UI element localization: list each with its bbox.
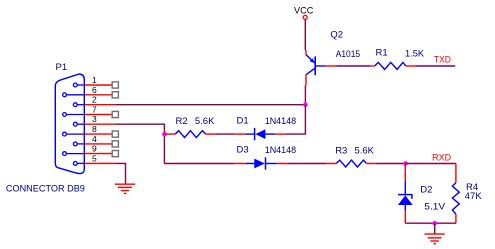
junction RXD: [403, 161, 408, 166]
pin number 1: [92, 75, 97, 85]
svg-text:7: 7: [92, 105, 97, 115]
no-connect square pin 7: [112, 111, 118, 117]
pin number 7: [92, 105, 97, 115]
pin 4 circle: [73, 142, 84, 146]
label 47K: [465, 191, 483, 202]
svg-text:47K: 47K: [465, 191, 483, 202]
wire junction down to D1 row: [286, 105, 306, 134]
label R3: [335, 145, 347, 156]
label 5.6K R3: [355, 145, 375, 156]
pin 5 circle: [73, 162, 84, 166]
wire pin2 to Q2 collector: [116, 104, 306, 106]
pin 5 lead: [84, 162, 115, 164]
pin 2 lead: [84, 104, 115, 106]
junction R2 tap: [162, 132, 167, 137]
wire R2 to D1: [216, 133, 235, 135]
label CONNECTOR DB9: [6, 184, 85, 195]
wire R1 to TXD: [416, 65, 456, 67]
label A1015: [336, 49, 360, 60]
svg-text:TXD: TXD: [434, 55, 451, 66]
pin number 4: [92, 134, 97, 144]
pin 1 circle: [73, 83, 84, 87]
transistor Q2: [306, 50, 336, 85]
svg-text:5.6K: 5.6K: [355, 145, 375, 156]
pin 8 lead: [84, 133, 112, 135]
pin 2 circle: [73, 103, 84, 107]
wire bottom D2 to R4: [405, 222, 456, 224]
pin number 8: [92, 124, 97, 134]
wire R3 to RXD junction: [376, 163, 406, 165]
wire D3 to R3: [287, 163, 325, 165]
svg-text:D1: D1: [237, 116, 249, 127]
svg-text:P1: P1: [56, 62, 68, 73]
resistor R4: [452, 164, 459, 224]
wire Q2 collector down: [304, 85, 306, 104]
svg-text:5: 5: [92, 153, 97, 163]
svg-text:1: 1: [92, 75, 97, 85]
junction Q2 collector / pin2: [303, 103, 308, 108]
junction ground bottom: [432, 221, 437, 226]
svg-text:R1: R1: [376, 48, 388, 59]
svg-text:D3: D3: [237, 145, 249, 156]
wire Q2 base to R1: [336, 65, 370, 67]
label D1: [237, 116, 249, 127]
svg-text:D2: D2: [420, 185, 432, 196]
wire VCC to Q2 emitter: [304, 20, 306, 51]
diode D1: [235, 128, 286, 140]
pin number 9: [92, 144, 97, 154]
pin 9 lead: [84, 153, 112, 155]
svg-text:CONNECTOR DB9: CONNECTOR DB9: [6, 184, 85, 195]
power port VCC: [294, 6, 313, 20]
svg-text:9: 9: [92, 144, 97, 154]
pin number 2: [92, 95, 97, 105]
svg-text:R3: R3: [335, 145, 347, 156]
wire junction to ground right: [434, 223, 436, 234]
svg-text:RXD: RXD: [432, 152, 451, 163]
diode D3: [234, 157, 287, 169]
net label TXD: [434, 55, 451, 66]
resistor R1: [370, 62, 415, 69]
svg-text:A1015: A1015: [336, 49, 360, 60]
pin 3 circle: [73, 122, 84, 126]
connector P1 DB9 outline: [55, 74, 84, 174]
ground left: [115, 184, 135, 193]
no-connect square pin 6: [112, 92, 118, 98]
label 5.1V: [424, 201, 446, 212]
pin 9 circle: [63, 152, 85, 156]
svg-text:1N4148: 1N4148: [265, 116, 297, 127]
pin 7 circle: [63, 113, 85, 117]
label P1: [56, 62, 68, 73]
label 1N4148 D3: [265, 145, 297, 156]
pin 4 lead: [84, 143, 112, 145]
pin 6 lead: [84, 94, 112, 96]
net label RXD: [432, 152, 451, 163]
pin 1 lead: [84, 84, 112, 86]
pin 3 lead: [84, 123, 115, 125]
pin number 6: [92, 85, 97, 95]
pin number 5: [92, 153, 97, 163]
zener diode D2: [398, 165, 413, 224]
svg-text:4: 4: [92, 134, 97, 144]
label Q2: [330, 30, 343, 41]
svg-text:2: 2: [92, 95, 97, 105]
svg-text:Q2: Q2: [330, 30, 343, 41]
label 5.6K R2: [195, 116, 215, 127]
ground right: [424, 234, 444, 244]
svg-text:1N4148: 1N4148: [265, 145, 297, 156]
label R1: [376, 48, 388, 59]
label R2: [176, 116, 188, 127]
pin 8 circle: [63, 132, 85, 136]
label D3: [237, 145, 249, 156]
svg-text:R2: R2: [176, 116, 188, 127]
svg-text:VCC: VCC: [294, 6, 313, 17]
wire vertical pin3 branch to D3: [164, 163, 234, 165]
svg-text:6: 6: [92, 85, 97, 95]
label D2: [420, 185, 432, 196]
resistor R2: [164, 131, 215, 138]
svg-text:5.1V: 5.1V: [424, 201, 446, 212]
label 1.5K: [405, 49, 425, 60]
svg-text:3: 3: [92, 114, 97, 124]
label 1N4148 D1: [265, 116, 297, 127]
no-connect square pin 1: [112, 82, 118, 88]
label R4: [466, 182, 478, 193]
no-connect square pin 4: [112, 141, 118, 147]
svg-text:1.5K: 1.5K: [405, 49, 425, 60]
pin 6 circle: [63, 93, 85, 97]
svg-text:8: 8: [92, 124, 97, 134]
pin number 3: [92, 114, 97, 124]
resistor R3: [326, 160, 376, 167]
no-connect square pin 9: [112, 151, 118, 157]
wire RXD junction to R4: [405, 163, 456, 165]
wire pin3 to R2/D3: [116, 124, 165, 163]
svg-text:5.6K: 5.6K: [195, 116, 215, 127]
no-connect square pin 8: [112, 131, 118, 137]
wire pin5 to ground: [116, 163, 126, 184]
pin 7 lead: [84, 114, 112, 116]
